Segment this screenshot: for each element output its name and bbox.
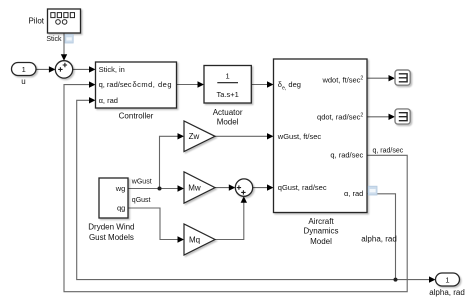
svg-text:Model: Model: [217, 117, 239, 126]
svg-text:q, rad/sec: q, rad/sec: [330, 151, 363, 160]
svg-text:1: 1: [445, 275, 449, 284]
svg-text:δcmd, deg: δcmd, deg: [132, 80, 172, 89]
svg-text:q, rad/sec: q, rad/sec: [99, 80, 132, 89]
svg-text:Pilot: Pilot: [28, 17, 44, 26]
svg-text:qGust: qGust: [132, 197, 151, 204]
svg-text:qdot, rad/sec2: qdot, rad/sec2: [317, 113, 363, 122]
svg-text:Zw: Zw: [189, 132, 200, 141]
svg-text:alpha, rad: alpha, rad: [429, 288, 465, 297]
svg-text:Gust Models: Gust Models: [89, 233, 134, 242]
svg-text:qg: qg: [117, 204, 125, 213]
svg-text:Dynamics: Dynamics: [303, 227, 338, 236]
svg-text:Model: Model: [310, 237, 332, 246]
svg-text:Dryden Wind: Dryden Wind: [88, 223, 134, 232]
svg-text:wg: wg: [115, 184, 126, 193]
svg-text:Actuator: Actuator: [213, 108, 243, 117]
svg-text:α, rad: α, rad: [99, 96, 118, 105]
svg-text:Aircraft: Aircraft: [308, 217, 334, 226]
svg-text:Mw: Mw: [188, 183, 201, 192]
svg-text:Mq: Mq: [189, 235, 200, 244]
svg-text:wGust: wGust: [131, 178, 152, 185]
svg-text:α, rad: α, rad: [344, 189, 363, 198]
svg-text:1: 1: [226, 71, 230, 80]
svg-text:wdot, ft/sec2: wdot, ft/sec2: [321, 76, 363, 85]
svg-text:qGust, rad/sec: qGust, rad/sec: [278, 183, 327, 192]
svg-text:Stick, in: Stick, in: [99, 65, 125, 74]
svg-text:q, rad/sec: q, rad/sec: [373, 147, 404, 154]
svg-text:u: u: [21, 77, 25, 86]
svg-text:Controller: Controller: [119, 111, 154, 120]
svg-text:wGust, ft/sec: wGust, ft/sec: [277, 132, 322, 141]
svg-text:alpha, rad: alpha, rad: [361, 235, 397, 244]
svg-text:1: 1: [22, 65, 26, 74]
svg-text:Stick: Stick: [46, 36, 62, 43]
svg-text:Ta.s+1: Ta.s+1: [216, 90, 238, 99]
